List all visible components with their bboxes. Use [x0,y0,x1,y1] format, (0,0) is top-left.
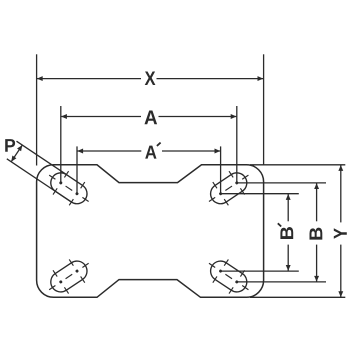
extension line Y top [250,164,345,166]
extension line A-prime left [76,146,78,193]
extension line A-prime right [220,146,222,193]
dimension A [61,111,236,125]
slot top-right [201,163,256,213]
dimension A-prime [77,143,220,159]
extension line B-prime top [221,193,299,195]
slot bottom-left [41,252,96,302]
dimension Y [334,165,347,297]
extension line A left [60,106,62,183]
extension line B top [237,182,326,184]
extension line B-prime bottom [221,270,299,272]
dimension B [310,183,323,281]
extension line B bottom [237,281,326,283]
extension line X left [36,54,38,165]
dimension P tangent line lower [7,159,72,202]
label P [5,139,15,152]
dimension P tangent line upper [17,141,67,174]
slot top-left [41,163,96,213]
slot bottom-right [201,252,256,302]
dimension X [37,72,263,85]
dimension B-prime [278,194,293,271]
extension line Y bottom [250,296,345,298]
extension line X right [263,54,265,165]
extension line A right [236,106,238,183]
mounting plate outline [37,165,264,297]
dimension P arrow [11,145,22,162]
